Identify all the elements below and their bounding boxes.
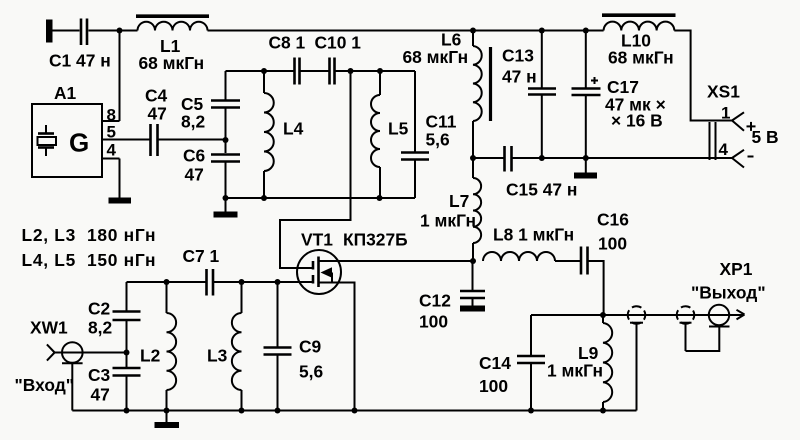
inductor L2: [140, 282, 176, 411]
svg-text:5,6: 5,6: [426, 130, 451, 150]
svg-text:100: 100: [479, 376, 508, 396]
node C8/C10 junction: [348, 68, 354, 74]
capacitor C16: [581, 210, 629, 275]
wire tank bottom rail: [226, 197, 416, 199]
svg-text:4: 4: [719, 140, 729, 159]
svg-text:C12: C12: [419, 291, 451, 311]
inductor L1: [136, 16, 209, 73]
svg-text:C8 1: C8 1: [269, 33, 306, 53]
svg-text:5: 5: [107, 123, 116, 142]
node L9 bottom: [600, 408, 606, 414]
node out rail / L9 top: [600, 312, 606, 318]
wire bottom rail: [72, 410, 636, 412]
svg-text:47: 47: [185, 165, 204, 185]
wire: [89, 30, 138, 32]
node XW1/C2/C3: [124, 350, 130, 356]
node C17 bottom: [583, 155, 589, 161]
svg-text:"Вход": "Вход": [15, 375, 75, 395]
capacitor C14: [479, 315, 545, 411]
wire C16 to out rail: [589, 261, 604, 315]
svg-text:100: 100: [419, 312, 448, 332]
wire tank top rail: [226, 70, 416, 72]
wire source: [319, 283, 355, 411]
node C14 bottom: [528, 408, 534, 414]
inductor L6: [403, 30, 491, 159]
pin 8: [102, 106, 120, 125]
wire mid rail: [473, 157, 732, 159]
svg-text:× 16 В: × 16 В: [611, 111, 663, 131]
node L3 top: [239, 279, 245, 285]
node C13 bottom: [539, 155, 545, 161]
wire drain: [319, 260, 474, 262]
wire: [53, 30, 80, 32]
svg-text:100: 100: [598, 234, 627, 254]
svg-text:VT1: VT1: [301, 230, 333, 250]
svg-text:47 н: 47 н: [502, 67, 537, 87]
connector XW1: [15, 318, 127, 411]
svg-text:C16: C16: [597, 210, 629, 230]
capacitor C4: [145, 86, 168, 157]
node: [117, 28, 123, 34]
svg-text:L4, L5 150 нГн: L4, L5 150 нГн: [22, 250, 157, 270]
capacitor C5: [181, 71, 240, 153]
wire pin8 riser: [119, 31, 121, 122]
svg-text:G: G: [69, 128, 89, 158]
svg-text:5,6: 5,6: [299, 362, 324, 382]
svg-text:C15 47 н: C15 47 н: [506, 180, 577, 200]
wire gate2 path from C8/C10 junction: [280, 71, 351, 268]
svg-text:68 мкГн: 68 мкГн: [403, 47, 469, 67]
svg-text:5 В: 5 В: [752, 127, 779, 147]
capacitor C9: [264, 282, 324, 411]
inductor L8: [483, 225, 581, 262]
svg-text:C6: C6: [183, 146, 206, 166]
capacitor C17: [572, 31, 666, 159]
capacitor C13: [502, 31, 556, 159]
node C13 top: [539, 28, 545, 34]
svg-text:4: 4: [107, 141, 117, 160]
capacitor C12: [419, 261, 485, 332]
svg-text:C14: C14: [479, 353, 511, 373]
node C3 bottom: [124, 408, 130, 414]
svg-text:XP1: XP1: [720, 259, 753, 279]
capacitor C15: [505, 146, 578, 200]
connector XP1: [686, 259, 766, 351]
svg-text:L8 1 мкГн: L8 1 мкГн: [493, 225, 574, 245]
wire input top rail: [127, 281, 314, 283]
svg-text:XS1: XS1: [707, 82, 740, 102]
oscillator module A1 box: [32, 83, 102, 177]
node C9 top: [275, 279, 281, 285]
node L6 top: [470, 28, 476, 34]
svg-text:47: 47: [91, 385, 110, 405]
transistor VT1: [297, 230, 408, 295]
terminal bar at C1 left: [46, 20, 53, 43]
svg-text:C4: C4: [145, 86, 168, 106]
inductor L10: [602, 15, 676, 67]
inductor L4: [264, 71, 304, 198]
ground L2: [155, 411, 180, 429]
capacitor C2: [88, 282, 141, 367]
node drain/L7/L8/C12: [470, 258, 476, 264]
svg-text:A1: A1: [54, 83, 77, 103]
svg-text:1 мкГн: 1 мкГн: [547, 361, 603, 381]
node L6/L7/C15: [470, 155, 476, 161]
svg-text:68 мкГн: 68 мкГн: [139, 53, 205, 73]
node L2 top: [164, 279, 170, 285]
svg-text:8,2: 8,2: [88, 318, 112, 338]
node L4 bottom: [261, 195, 267, 201]
svg-text:1: 1: [721, 104, 730, 123]
connector XS1: [707, 82, 779, 168]
node C4/C5/C6: [223, 137, 229, 143]
capacitor C1: [49, 19, 111, 71]
node L3 bottom: [239, 408, 245, 414]
svg-text:68 мкГн: 68 мкГн: [608, 48, 674, 68]
inductor L7: [420, 158, 481, 261]
node L2 bottom: [164, 408, 170, 414]
capacitor C11: [401, 71, 457, 198]
svg-text:47: 47: [148, 104, 167, 124]
coax joint 1 (dashed): [628, 306, 646, 410]
node L5 bottom: [377, 195, 383, 201]
inductor L5: [371, 71, 409, 198]
svg-text:8,2: 8,2: [181, 112, 205, 132]
svg-text:C13: C13: [502, 46, 534, 66]
inductor L3: [207, 282, 242, 411]
ground C6: [214, 212, 238, 218]
svg-text:1 мкГн: 1 мкГн: [420, 211, 476, 231]
wire top rail: [208, 30, 604, 32]
node L5 top: [377, 68, 383, 74]
wire C4 to node: [159, 139, 226, 141]
pin 5: [102, 123, 150, 142]
pin 4: [102, 141, 120, 160]
ground A1: [109, 198, 132, 204]
svg-text:C7 1: C7 1: [183, 246, 220, 266]
svg-text:C11: C11: [426, 112, 457, 132]
wire out rail: [531, 314, 744, 316]
svg-text:L4: L4: [283, 119, 304, 139]
svg-text:L2, L3 180 нГн: L2, L3 180 нГн: [22, 225, 157, 245]
ground C17: [574, 158, 597, 179]
wire L10 to XS1: [674, 31, 732, 121]
inductor L9: [547, 315, 612, 411]
svg-text:"Выход": "Выход": [691, 283, 766, 303]
capacitor C7: [183, 246, 220, 296]
svg-text:C9: C9: [299, 337, 322, 357]
capacitor C8: [269, 33, 306, 85]
wire pin4 drop: [119, 159, 121, 199]
svg-text:L7: L7: [449, 191, 469, 211]
svg-text:L5: L5: [388, 119, 409, 139]
svg-text:L3: L3: [207, 346, 228, 366]
capacitor C6: [183, 146, 240, 213]
node source bottom: [352, 408, 358, 414]
capacitor C10: [315, 33, 362, 85]
svg-text:C1 47 н: C1 47 н: [49, 51, 111, 71]
capacitor C3: [88, 365, 141, 411]
node L4 top: [261, 68, 267, 74]
node C17 top: [583, 28, 589, 34]
svg-text:XW1: XW1: [30, 318, 68, 338]
node tank bottom left: [223, 195, 229, 201]
coax joint 2 (dashed): [677, 306, 695, 351]
svg-text:C3: C3: [88, 365, 111, 385]
svg-text:C10 1: C10 1: [315, 33, 362, 53]
node C9 bottom: [275, 408, 281, 414]
crystal inside A1: [38, 125, 57, 156]
svg-text:C2: C2: [88, 299, 110, 319]
svg-text:L2: L2: [140, 346, 160, 366]
svg-text:КП327Б: КП327Б: [343, 230, 408, 250]
